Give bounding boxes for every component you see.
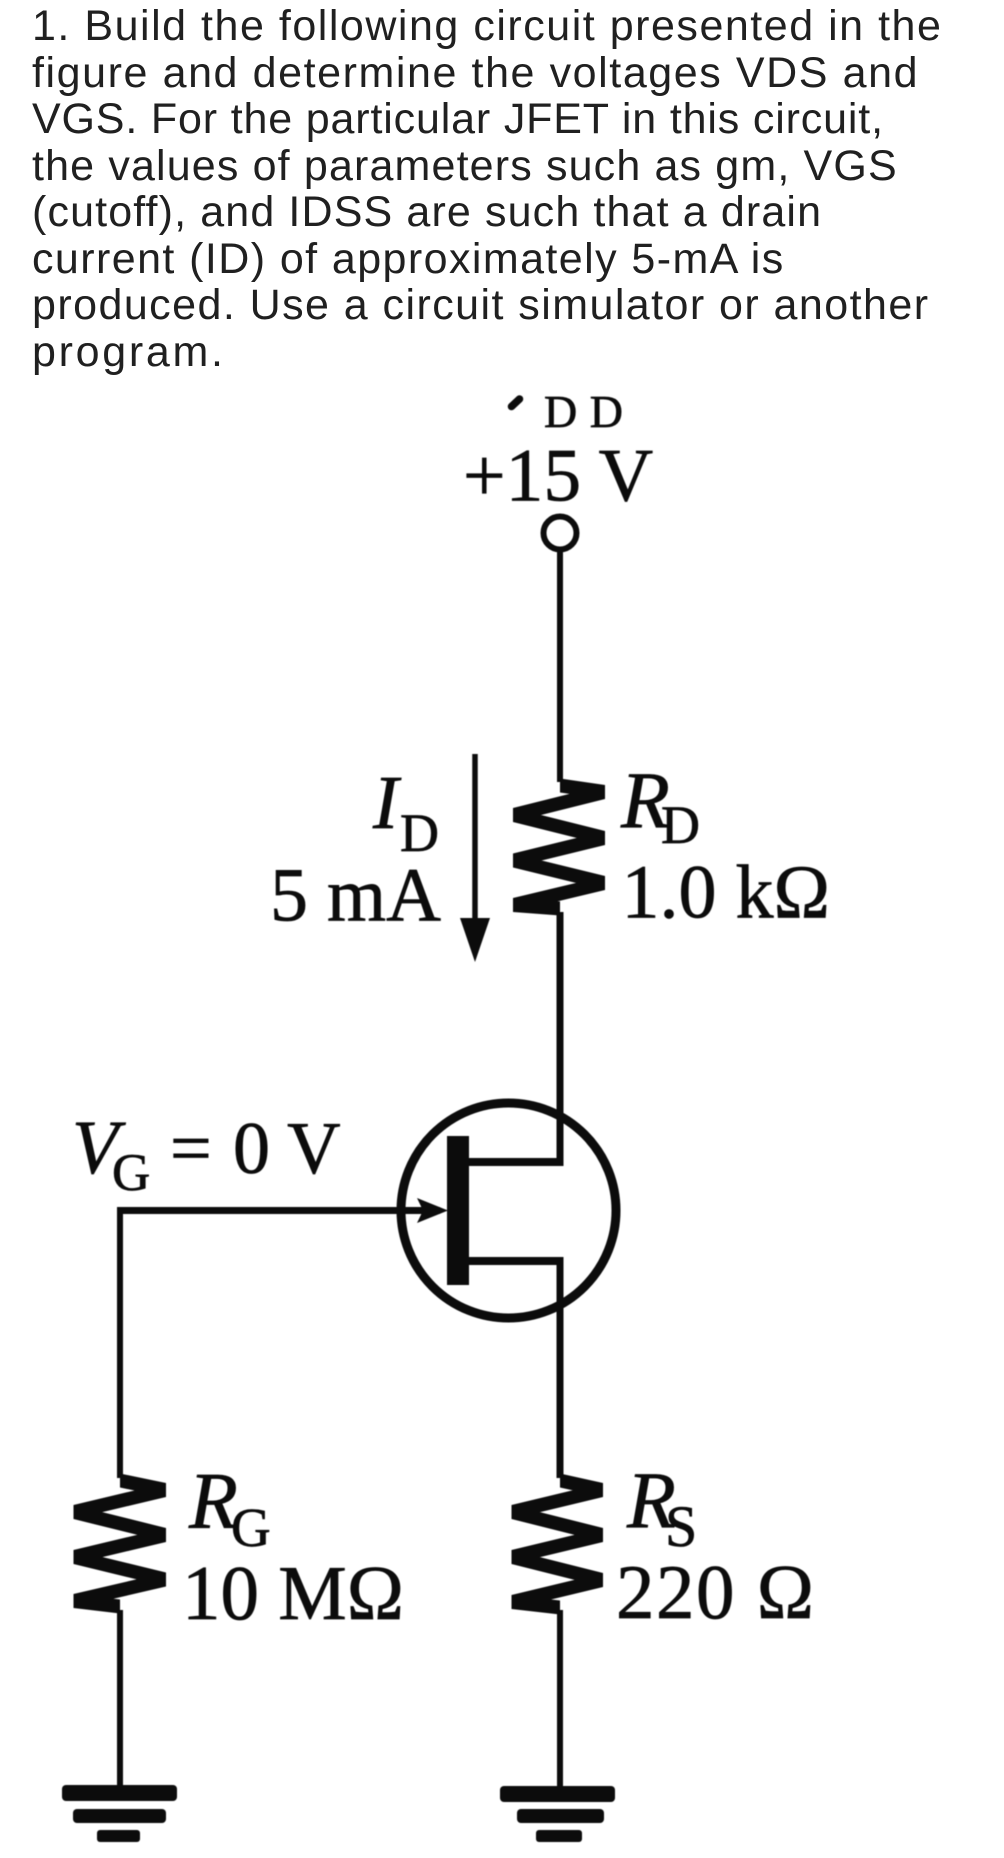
svg-text:=: = bbox=[170, 1108, 212, 1190]
svg-text:DD: DD bbox=[544, 386, 635, 437]
svg-text:5 mA: 5 mA bbox=[270, 854, 441, 938]
svg-text:10 MΩ: 10 MΩ bbox=[182, 1550, 404, 1636]
svg-text:1.0 kΩ: 1.0 kΩ bbox=[622, 851, 830, 935]
svg-text:G: G bbox=[112, 1144, 150, 1202]
svg-text:0 V: 0 V bbox=[233, 1108, 341, 1190]
svg-text:I: I bbox=[372, 761, 402, 845]
svg-text:D: D bbox=[661, 795, 700, 855]
svg-text:G: G bbox=[231, 1497, 271, 1558]
svg-text:220 Ω: 220 Ω bbox=[616, 1549, 815, 1635]
svg-text:+15 V: +15 V bbox=[463, 435, 653, 518]
